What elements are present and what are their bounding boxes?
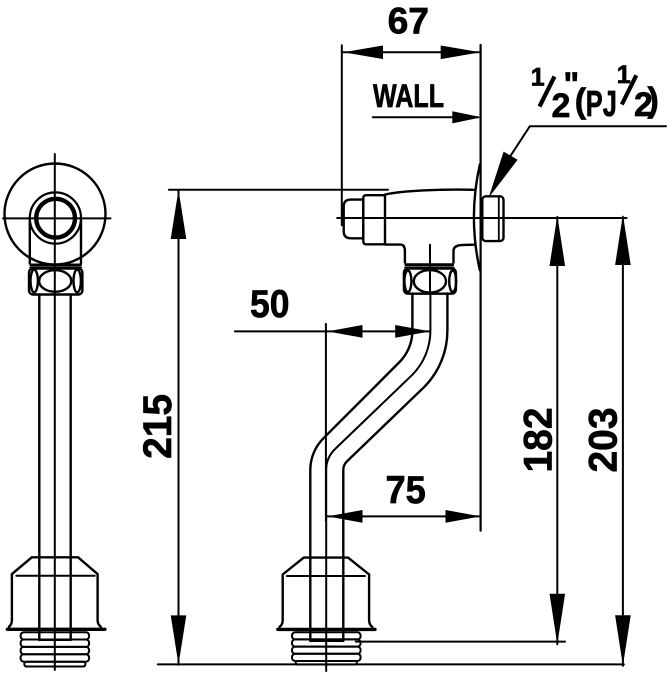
main nut right cap ellipse: [449, 271, 456, 292]
left view: nut right cap ellipse: [74, 270, 81, 293]
valve body bottom right edge with fillet from neck: [454, 245, 475, 263]
left view: thread ridge 2: [21, 640, 90, 647]
dim 182 top arrowhead: [550, 216, 566, 267]
bottom extension line (215/203): [158, 663, 624, 665]
left view: nut top band thin: [30, 267, 81, 269]
valve down-leg centerline upper: [429, 245, 431, 294]
dim 67 right arrowhead: [441, 46, 481, 60]
dim 50 line: [235, 330, 430, 332]
left view: pipe end line inside bell: [39, 639, 70, 641]
arrowheads (filled): [171, 46, 631, 666]
main lower centerline below pipe end: [325, 641, 327, 671]
left view: nut top band thick: [31, 264, 80, 267]
left view: spout capsule circle: [30, 192, 81, 243]
left view: thread ridge 4: [21, 654, 90, 661]
dim 75 line: [327, 515, 481, 517]
svg-text:203: 203: [582, 408, 626, 473]
dim 215 top extension line: [169, 189, 388, 191]
svg-text:50: 50: [250, 283, 290, 326]
dim 203 top arrowhead: [615, 215, 631, 266]
dim 203 bottom arrowhead: [615, 615, 631, 666]
left view: bell flange outline: [9, 557, 101, 627]
main thread ridge 3: [292, 647, 361, 654]
S-pipe centerline: [326, 294, 430, 642]
dim 67 left arrowhead: [343, 46, 383, 60]
main nut center oval: [414, 270, 446, 293]
wall thread nipple PJ1/2: [482, 196, 503, 241]
valve body top edge: [385, 190, 474, 195]
leader arrowhead for PJ label: [489, 152, 518, 198]
main coupling nut body: [404, 269, 456, 294]
main thread bottom lip: [296, 661, 357, 665]
left view: coupling nut body: [29, 269, 82, 295]
left view: bell flange bottom thick line: [7, 628, 105, 631]
push button cap: [344, 200, 364, 239]
left view: neck side walls: [30, 220, 81, 264]
left view: valve face big circle: [5, 164, 106, 265]
svg-text:67: 67: [388, 1, 429, 42]
WALL arrowhead: [452, 111, 481, 123]
main thread ridge 4: [292, 654, 361, 661]
left view: thread ridge 1: [21, 632, 90, 639]
leader line for PJ label: [511, 126, 666, 155]
main nut top band thick: [406, 263, 453, 266]
main nut left cap ellipse: [404, 271, 411, 292]
left view: nut center oval: [39, 270, 71, 292]
dim 75 left arrowhead: [328, 510, 363, 523]
dim 50 left arrowhead: [328, 325, 363, 338]
left view: nut left cap ellipse: [31, 270, 38, 293]
main thread ridge 2: [292, 639, 361, 646]
push button flange: [363, 195, 385, 244]
dim WALL arrow line: [373, 116, 478, 118]
escutcheon flange arc at wall: [474, 164, 480, 270]
dim 215 top arrowhead: [171, 190, 187, 239]
dim 215 line: [178, 190, 180, 665]
svg-text:75: 75: [386, 469, 426, 512]
left view: bell inner shoulder line: [16, 575, 94, 577]
svg-text:182: 182: [516, 408, 560, 473]
left view: spout opening thick ring: [36, 199, 75, 238]
left view: horizontal centerline: [3, 217, 111, 219]
main bell flange outline: [279, 558, 372, 627]
valve body bottom left edge with fillet to neck: [385, 245, 405, 263]
left view: thread ridge 3: [21, 647, 90, 654]
main bell flange bottom thick line: [278, 628, 375, 631]
S-pipe right wall: [343, 294, 447, 642]
svg-text:1: 1: [531, 64, 545, 92]
left view: thread bottom lip: [24, 662, 85, 667]
dim 67 line: [343, 51, 480, 53]
left view: pipe walls: [39, 295, 70, 641]
dim 215 bottom arrowhead: [171, 615, 187, 664]
main view centerline horizontal: [337, 217, 626, 219]
dim 182 bottom extension line: [356, 641, 565, 643]
dim 182 bottom arrowhead: [550, 594, 566, 645]
fraction slash 1: [540, 77, 555, 107]
dim 50 extension line (lower pipe centerline extended): [325, 324, 327, 521]
S-pipe left wall: [310, 294, 412, 642]
svg-text:215: 215: [136, 394, 180, 459]
dim 203 line: [622, 217, 624, 666]
wall line: [480, 45, 482, 531]
main bell inner shoulder line: [287, 575, 365, 577]
dim 182 line: [556, 217, 558, 644]
main thread ridge 1: [292, 632, 361, 639]
fraction slash 2: [622, 75, 637, 104]
svg-text:PJ: PJ: [586, 83, 617, 124]
main pipe end line inside bell: [310, 640, 343, 642]
main nut top band thin: [405, 266, 454, 268]
svg-text:1: 1: [617, 61, 631, 89]
dim 67 extension line left: [341, 45, 343, 225]
dim 75 right arrowhead: [446, 510, 481, 523]
svg-text:): ): [648, 82, 659, 120]
thread relief groove line: [498, 198, 500, 241]
svg-text:WALL: WALL: [373, 78, 444, 114]
dim 50 right arrowhead: [395, 325, 430, 338]
left view: vertical centerline: [54, 154, 56, 670]
